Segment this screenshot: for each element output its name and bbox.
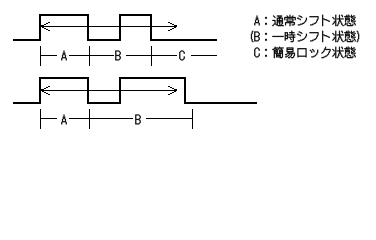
dimension line 2 segment 3 xyxy=(146,118,192,119)
waveform 2 high segment 1 xyxy=(39,77,89,79)
dimension line 1 segment 3 xyxy=(126,55,177,56)
legend line 3: C: simple lock state xyxy=(254,47,355,58)
dimension line 2 label A xyxy=(61,115,66,125)
arrow 2 shaft xyxy=(41,90,177,91)
waveform 1 high segment 1 xyxy=(39,14,89,16)
dimension line 1 tick 1 xyxy=(40,46,41,66)
arrow 1 left head xyxy=(42,22,50,31)
waveform 1 low segment start xyxy=(13,39,41,41)
arrow 1 left tip xyxy=(41,25,43,27)
legend line 1: A: normal shift state xyxy=(254,15,355,26)
dimension line 2 segment 2 xyxy=(69,118,133,119)
waveform 2 falling edge 1 xyxy=(87,77,89,104)
dimension line 2 segment 1 xyxy=(41,118,57,119)
dimension line 2 end tick xyxy=(192,109,193,129)
waveform 2 falling edge 2 xyxy=(184,77,186,104)
waveform 1 rising edge 1 xyxy=(39,14,41,41)
arrow 1 shaft xyxy=(41,26,177,27)
waveform 2 low segment end xyxy=(184,102,257,104)
waveform 1 falling edge 2 xyxy=(150,14,152,41)
dimension line 1 tick 3 xyxy=(151,46,152,66)
dimension line 1 segment 2 xyxy=(69,55,114,56)
arrow 1 right head xyxy=(168,22,176,31)
waveform 1 high segment 2 xyxy=(119,14,152,16)
dimension line 2 tick 2 xyxy=(89,109,90,129)
dimension line 1 segment 1 xyxy=(41,55,57,56)
arrow 1 right tip xyxy=(175,25,177,27)
waveform 1 rising edge 2 xyxy=(119,14,121,41)
legend line 2: (B: temporary shift state) xyxy=(251,31,359,42)
waveform 2 rising edge 2 xyxy=(119,77,121,104)
dimension line 1 segment 4 xyxy=(191,55,217,56)
waveform 2 low segment start xyxy=(13,102,41,104)
dimension line 1 tick 2 xyxy=(89,46,90,66)
dimension line 1 label C xyxy=(179,51,184,61)
arrow 2 left tip xyxy=(41,89,43,91)
waveform 1 falling edge 1 xyxy=(87,14,89,41)
waveform 1 low segment mid xyxy=(87,39,121,41)
dimension line 1 label B xyxy=(115,51,120,61)
dimension line 2 tick 1 xyxy=(40,109,41,129)
waveform 2 rising edge 1 xyxy=(39,77,41,104)
arrow 2 right head xyxy=(168,86,176,95)
waveform 2 low segment mid xyxy=(87,102,121,104)
waveform 1 low segment end xyxy=(150,39,217,41)
arrow 2 right tip xyxy=(175,89,177,91)
arrow 2 left head xyxy=(42,86,50,95)
waveform 2 high segment 2 xyxy=(119,77,186,79)
dimension line 1 label A xyxy=(61,51,66,61)
dimension line 2 label B xyxy=(135,115,140,125)
